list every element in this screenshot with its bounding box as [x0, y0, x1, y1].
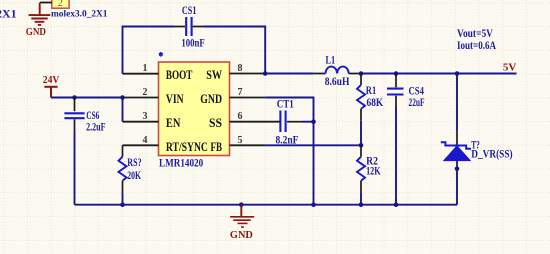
- svg-text:GND: GND: [230, 229, 253, 241]
- diode T? D_VR(SS) zener: [441, 130, 471, 169]
- svg-text:8.2nF: 8.2nF: [276, 132, 299, 146]
- wire RS? to bottom rail: [122, 193, 124, 205]
- svg-text:4: 4: [143, 135, 148, 146]
- pin 6 SS wire: [230, 121, 281, 123]
- svg-text:68K: 68K: [367, 95, 384, 109]
- svg-text:100nF: 100nF: [181, 36, 204, 50]
- wire EN tie (VIN to pin 3): [122, 98, 124, 122]
- wire VIN net (24V to pin 2): [51, 97, 123, 99]
- wire CT1 to GND vertical: [302, 121, 314, 123]
- svg-text:6: 6: [238, 111, 243, 122]
- svg-text:8.6uH: 8.6uH: [325, 74, 350, 88]
- node junction rail-CS4: [394, 71, 399, 76]
- wire diode to bottom rail: [456, 169, 458, 205]
- svg-text:22uF: 22uF: [409, 95, 425, 109]
- svg-text:2: 2: [143, 87, 148, 98]
- wire bottom ground rail: [75, 204, 458, 206]
- svg-text:12K: 12K: [366, 163, 381, 177]
- svg-text:8: 8: [238, 63, 243, 74]
- pin 8 SW wire: [230, 73, 266, 75]
- node junction VIN-EN: [120, 95, 125, 100]
- wire R2 to bottom rail: [360, 193, 362, 205]
- node junction rail-GND symbol: [239, 202, 244, 207]
- wire (connector pin to ground): [40, 2, 52, 4]
- pin 7 GND wire: [230, 97, 266, 99]
- node junction rail-GNDvertical: [311, 202, 316, 207]
- resistor RS?: [119, 145, 127, 192]
- wire CS1 to SW corner: [204, 27, 265, 74]
- capacitor CS1: [174, 17, 204, 36]
- ground GND (bottom): [230, 205, 254, 227]
- svg-text:2.2uF: 2.2uF: [86, 120, 106, 134]
- svg-text:BOOT: BOOT: [166, 68, 193, 82]
- svg-text:1: 1: [143, 63, 148, 74]
- node junction VIN-CS6: [72, 95, 77, 100]
- ground GND (top-left): [29, 3, 51, 25]
- svg-text:FB: FB: [211, 140, 223, 154]
- svg-text:EN: EN: [166, 116, 181, 130]
- svg-text:Vout=5V: Vout=5V: [457, 28, 494, 40]
- svg-text:RT/SYNC: RT/SYNC: [166, 140, 208, 154]
- node junction rail-R2: [359, 202, 364, 207]
- node junction CT1-GND: [311, 119, 316, 124]
- svg-text:SW: SW: [206, 68, 222, 82]
- op-amp U1 LMR14020 body: [159, 62, 230, 156]
- svg-text:3: 3: [143, 111, 148, 122]
- pin 1 BOOT wire: [123, 73, 159, 75]
- wire CS6 to bottom rail: [74, 132, 76, 205]
- svg-text:5V: 5V: [503, 62, 517, 74]
- svg-text:molex3.0_2X1: molex3.0_2X1: [51, 8, 108, 18]
- svg-text:24V: 24V: [43, 74, 60, 86]
- wire 5V rail: [361, 73, 517, 75]
- node junction rail-diode: [455, 71, 460, 76]
- svg-text:5: 5: [238, 135, 243, 146]
- svg-text:CT1: CT1: [277, 97, 294, 111]
- svg-text:2X1: 2X1: [0, 7, 17, 21]
- wire R1 to FB node: [360, 121, 362, 146]
- pin 5 FB wire: [230, 144, 266, 146]
- wire 5V to diode cathode: [456, 74, 458, 131]
- capacitor CS4: [387, 74, 404, 108]
- capacitor CS6: [64, 98, 84, 132]
- node junction FB-R1-R2: [359, 143, 364, 148]
- resistor R1: [357, 74, 365, 121]
- wire SW to L1: [265, 73, 314, 75]
- svg-text:LMR14020: LMR14020: [159, 158, 203, 170]
- node junction rail-CS4 bottom: [394, 202, 399, 207]
- capacitor CT1: [280, 111, 302, 133]
- pin 4 RT/SYNC wire: [123, 144, 159, 146]
- resistor R2: [357, 145, 365, 192]
- svg-text:GND: GND: [200, 92, 222, 106]
- wire GND pin to vertical: [265, 98, 313, 205]
- wire FB net: [265, 144, 361, 146]
- node junction SW: [263, 71, 268, 76]
- svg-text:GND: GND: [26, 27, 47, 38]
- svg-text:20K: 20K: [127, 168, 141, 182]
- pin 2 VIN wire: [123, 97, 159, 99]
- svg-text:7: 7: [238, 87, 243, 98]
- svg-text:Iout=0.6A: Iout=0.6A: [457, 40, 497, 52]
- inductor L1: [314, 67, 361, 74]
- svg-text:D_VR(SS): D_VR(SS): [471, 146, 512, 160]
- svg-text:L1: L1: [326, 52, 336, 66]
- power port 24V: [44, 87, 57, 98]
- svg-text:CS1: CS1: [182, 3, 197, 17]
- star marker: [159, 52, 163, 57]
- node diode anode: [455, 167, 460, 172]
- svg-text:VIN: VIN: [166, 92, 184, 106]
- pin 3 EN wire: [123, 121, 159, 123]
- wire CS4 to bottom rail: [395, 107, 397, 205]
- connector molex3.0_2X1 (yellow box, cropped at top): [52, 0, 69, 8]
- node junction rail-RS: [120, 202, 125, 207]
- svg-text:SS: SS: [209, 116, 222, 130]
- wire BOOT net vertical+horizontal to CS1: [123, 27, 175, 74]
- node junction rail-R1: [359, 71, 364, 76]
